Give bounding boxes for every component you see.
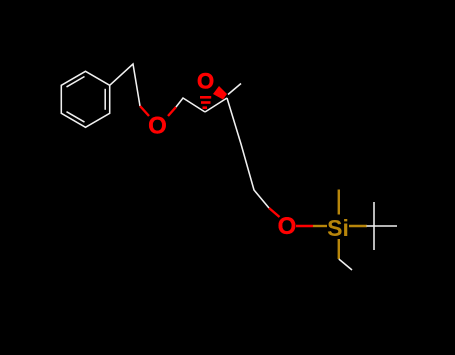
wire ether O to CH2 (red half-bond, up-right) [168,107,176,116]
wire tBu methyl right [374,225,397,227]
wire methyl hook down-right [339,259,352,270]
hashed wedge C2 to epoxide O [200,96,211,109]
aromatic double bond inner line (lower-left edge) [67,112,85,122]
svg-text:O: O [148,113,167,140]
wire tBu methyl up [373,202,375,226]
svg-text:O: O [197,69,214,94]
wire tBu methyl down [373,226,375,250]
wire CH2 to epoxide C2 [176,98,205,112]
aromatic double bond inner line (right edge) [104,89,106,110]
methyl stub on C3 [228,84,241,95]
benzene ring (phenyl of benzyl group) [61,71,109,127]
wire chain C3-C4-C5 [227,98,269,208]
solid wedge epoxide O to C3 [213,86,227,100]
wire CH2 to ether O (red half-bond) [140,106,149,116]
wire Si methyl down [338,239,340,259]
wire O-Si bond (red then goldenrod) [296,225,313,227]
wire C5 to silyl O (red half-bond) [269,208,280,217]
wire Si to tBu quaternary C (goldenrod then white) [349,225,367,227]
wire ring to benzyl CH2 apex and down toward ether O [110,64,140,106]
wire Si methyl up [338,190,340,215]
svg-text:O: O [278,213,297,240]
epoxide C2-C3 bond [205,98,227,112]
svg-text:Si: Si [327,215,349,241]
aromatic double bond inner line (upper-left edge) [67,77,85,87]
